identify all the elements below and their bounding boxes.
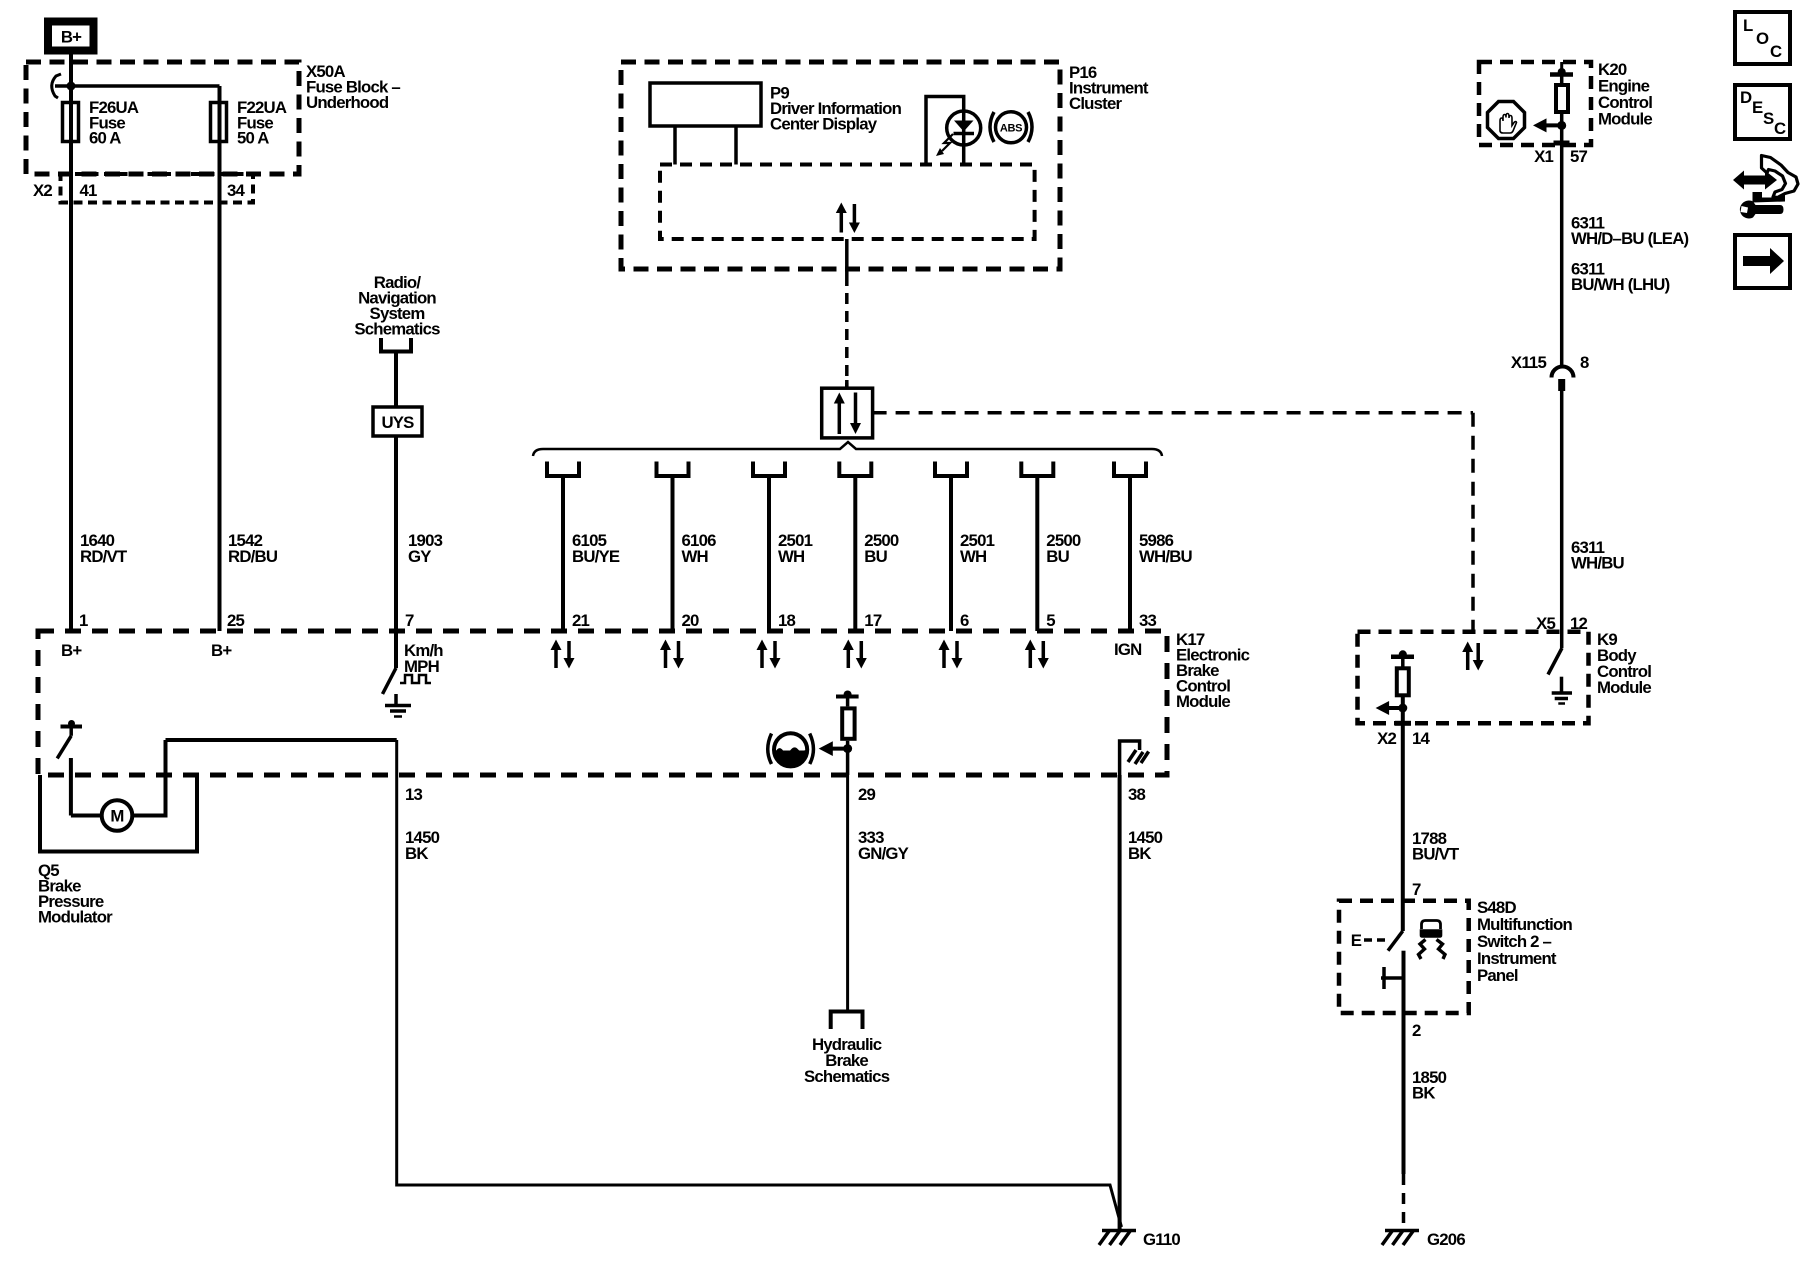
svg-text:E: E [1752, 98, 1763, 117]
brace over K17 serial connectors [533, 442, 1162, 456]
connector cup at wire 5986 [1114, 462, 1146, 477]
svg-text:14: 14 [1412, 729, 1431, 748]
svg-text:7: 7 [1412, 880, 1421, 899]
svg-text:BK: BK [1412, 1084, 1435, 1103]
svg-text:Module: Module [1176, 692, 1230, 711]
arrow inside K20 [1533, 118, 1562, 132]
svg-text:5: 5 [1046, 611, 1055, 630]
Q5 housing loop [40, 773, 197, 852]
up/down arrows at pin 20 [660, 640, 684, 669]
down arrow inside serial data box [849, 204, 860, 233]
indicator LED circle [947, 111, 981, 145]
wire label 2500 BU [864, 531, 899, 566]
wire label 6105 BU/YE [572, 531, 620, 566]
up/down arrows at pin 6 [939, 640, 963, 669]
svg-text:6: 6 [960, 611, 969, 630]
off-page connector bracket (radio/nav) [381, 338, 411, 352]
LED wire through [962, 111, 966, 165]
svg-text:BU: BU [1046, 547, 1069, 566]
svg-text:WH: WH [682, 547, 708, 566]
svg-text:BU/WH (LHU): BU/WH (LHU) [1571, 275, 1670, 294]
legend icon troubleshooting (arrows and wrench) [1733, 156, 1798, 219]
connector cup at wire 2501a [753, 462, 785, 477]
svg-text:B+: B+ [211, 641, 232, 660]
svg-text:60 A: 60 A [89, 129, 121, 148]
svg-text:BU/VT: BU/VT [1412, 845, 1460, 864]
junction node in K20 [1557, 121, 1566, 130]
ABS indicator right parenthesis [1028, 112, 1032, 142]
svg-text:41: 41 [80, 181, 98, 200]
connector cup at wire 2500a [839, 462, 871, 477]
up arrow inside serial data box [836, 203, 847, 233]
dashed serial data wire to comm node [845, 275, 849, 388]
junction node at pin 29 wire [843, 744, 852, 753]
wire label 1903 GY [408, 531, 443, 566]
wire 6311 from K20 to X115 [1560, 145, 1564, 365]
contact tick symbol in S48D [1381, 967, 1404, 989]
wire 333 GN/GY down to hydraulic brake bracket [846, 775, 849, 1010]
svg-text:Center Display: Center Display [770, 115, 878, 134]
wire label 2501 WH [778, 531, 813, 566]
svg-text:Module: Module [1597, 678, 1651, 697]
resistor element inside K9 [1391, 650, 1414, 723]
label Hydraulic Brake Schematics [804, 1035, 890, 1086]
svg-text:18: 18 [778, 611, 796, 630]
svg-text:1: 1 [79, 611, 88, 630]
wire 1450 BK from pin 38 to G110 [1118, 775, 1122, 1229]
wire label 1450 BK (pin 38) [1128, 828, 1163, 863]
display P9 Driver Information Center Display [650, 83, 761, 165]
label K20 Engine Control Module [1598, 60, 1652, 129]
up/down arrows at pin 17 [843, 640, 867, 669]
wire label 6311 WH/BU [1571, 538, 1625, 573]
wire motor left lead [71, 814, 102, 818]
ground G206 [1382, 1231, 1419, 1246]
svg-text:13: 13 [405, 785, 423, 804]
connector cup at wire 6106 [657, 462, 689, 477]
wire motor right lead up to K17 [132, 740, 165, 816]
wire 6105 BU/YE to K17 pin 21 [561, 476, 565, 631]
wire label 2501 WH [960, 531, 995, 566]
svg-text:X2: X2 [1377, 729, 1396, 748]
wire 6106 WH to K17 pin 20 [671, 476, 675, 631]
wire label 333 GN/GY [858, 828, 909, 863]
svg-text:RD/VT: RD/VT [80, 547, 128, 566]
connector X2 dashed box of fuse block [61, 174, 254, 203]
label P9 Driver Information Center Display [770, 84, 902, 134]
wire [1471, 413, 1475, 631]
wire label 6106 WH [682, 531, 717, 566]
wire from UYS to K17 pin 7 [394, 436, 398, 668]
fuse F22UA [211, 103, 227, 142]
instrument cluster P16 dashed box [621, 62, 1060, 269]
up/down arrows at pin 18 [757, 640, 781, 669]
wire from bracket to UYS option box [394, 352, 398, 408]
label Q5 Brake Pressure Modulator [38, 861, 113, 927]
internal ground symbol at K17 pin 38 [1120, 741, 1149, 775]
connector hook at B+ bus junction [52, 74, 61, 98]
up/down arrows at pin 5 [1025, 640, 1049, 669]
label S48D Multifunction Switch 2 Instrument Panel [1477, 898, 1572, 985]
label Km/h MPH [404, 641, 443, 676]
svg-text:7: 7 [405, 611, 414, 630]
resistive element squiggle at speed switch [400, 675, 431, 683]
svg-text:O: O [1756, 29, 1769, 48]
svg-text:MPH: MPH [404, 657, 439, 676]
svg-text:38: 38 [1128, 785, 1146, 804]
wire from B+ through fuse F26UA to K17 pin 1 [69, 55, 73, 632]
svg-text:WH/BU: WH/BU [1571, 554, 1625, 573]
dashed serial data wire from node box to K9 [873, 411, 1473, 415]
wire label 5986 WH/BU [1139, 531, 1193, 566]
legend icon arrow box [1735, 235, 1790, 288]
svg-text:X2: X2 [33, 181, 52, 200]
wire label 1788 BU/VT [1412, 829, 1460, 864]
svg-text:BU: BU [864, 547, 887, 566]
ABS indicator circle [996, 112, 1027, 143]
brake warning indicator symbol [768, 733, 814, 766]
serial data dashed box inside P16 [660, 165, 1035, 240]
svg-text:ABS: ABS [1000, 123, 1022, 135]
wire 1450 BK from pin 13 to G110 [397, 740, 1122, 1227]
LED cathode bar [954, 132, 975, 136]
junction node at fuse 1 [67, 82, 76, 91]
svg-text:20: 20 [682, 611, 700, 630]
svg-text:BK: BK [1128, 844, 1151, 863]
svg-text:D: D [1740, 88, 1752, 107]
connector cup at wire 2500b [1021, 462, 1053, 477]
dashed wire segment to G206 [1402, 1174, 1406, 1228]
svg-text:50 A: 50 A [237, 129, 269, 148]
Q5 pump relay contact inside K17 [57, 720, 82, 758]
LED emission arrow [942, 134, 953, 151]
wire from serial data box through P16 edge [845, 239, 849, 275]
svg-text:57: 57 [1570, 147, 1588, 166]
wire 5986 WH/BU to K17 pin 33 [1128, 476, 1132, 631]
svg-text:X1: X1 [1534, 147, 1553, 166]
label P16 Instrument Cluster [1069, 63, 1149, 113]
svg-text:C: C [1774, 119, 1786, 138]
brake warning indicator lamp housing [926, 97, 964, 165]
switch arm inside S48D [1388, 931, 1403, 951]
wire inside K17 to pin 13 [166, 738, 397, 742]
octagon hand icon inside K20 [1488, 102, 1525, 139]
svg-text:WH: WH [960, 547, 986, 566]
ABS indicator left parenthesis [990, 112, 994, 142]
wire from contact to Q5 motor [69, 758, 73, 816]
connector cup at wire 2501b [935, 462, 967, 477]
svg-text:33: 33 [1139, 611, 1157, 630]
wire label 2500 BU [1046, 531, 1081, 566]
fuse block X50A dashed box [26, 62, 299, 174]
wire 1850 BK from S48D toward G206 [1402, 1013, 1406, 1174]
resistor element at K17 pin 29 [836, 691, 859, 776]
up/down arrows inside K9 [1462, 642, 1484, 671]
legend icon LOC box [1735, 12, 1790, 64]
svg-text:Underhood: Underhood [306, 93, 389, 112]
svg-text:BU/YE: BU/YE [572, 547, 620, 566]
wire 2500 BU to K17 pin 5 [1035, 476, 1039, 631]
svg-text:G110: G110 [1143, 1230, 1180, 1249]
svg-text:L: L [1743, 16, 1753, 35]
svg-text:29: 29 [858, 785, 876, 804]
svg-text:2: 2 [1412, 1021, 1421, 1040]
svg-text:Cluster: Cluster [1069, 94, 1122, 113]
dashed link from E to switch [1364, 938, 1387, 942]
wire label 1542 RD/BU [228, 531, 278, 566]
off-page reference Radio/Navigation System Schematics [354, 273, 440, 339]
in-line connector X115 pin 8 [1552, 367, 1574, 391]
junction node in K9 [1398, 704, 1407, 713]
ground symbol inside K9 [1552, 677, 1572, 704]
wire 1788 BU/VT from K9 to S48D [1401, 723, 1405, 931]
motor M of Q5 [102, 800, 133, 831]
svg-text:WH: WH [778, 547, 804, 566]
wire label 1640 RD/VT [80, 531, 128, 566]
svg-text:M: M [110, 807, 123, 826]
svg-text:E: E [1351, 931, 1362, 950]
arrow inside K9 [1376, 701, 1403, 715]
K17 Electronic Brake Control Module dashed box [38, 631, 1167, 775]
off-page connector bracket (hydraulic brake) [831, 1012, 863, 1030]
svg-text:X115: X115 [1511, 353, 1547, 372]
serial communication node box with arrows [822, 388, 873, 438]
svg-text:G206: G206 [1427, 1230, 1465, 1249]
svg-text:C: C [1770, 42, 1782, 61]
wire label 6311 BU/WH (LHU) [1571, 260, 1670, 295]
wire stub above comm node box [845, 380, 849, 388]
svg-text:Modulator: Modulator [38, 908, 113, 927]
multifunction switch S48D dashed box [1339, 901, 1469, 1013]
wire label 6311 WH/D-BU (LEA) [1571, 214, 1689, 249]
svg-text:Module: Module [1598, 110, 1652, 129]
svg-text:Panel: Panel [1477, 966, 1518, 985]
arrow to brake warning indicator [819, 741, 848, 756]
up/down arrows at pin 21 [551, 640, 575, 669]
engine control module K20 dashed box [1479, 62, 1591, 145]
svg-text:8: 8 [1580, 353, 1589, 372]
svg-text:B+: B+ [61, 641, 82, 660]
svg-text:S: S [1763, 109, 1774, 128]
ESC off icon (car with skid marks) [1419, 921, 1446, 960]
svg-text:17: 17 [864, 611, 882, 630]
fuse F26UA [63, 103, 79, 142]
connector cup at wire 6105 [547, 462, 579, 477]
option box UYS [373, 407, 422, 436]
svg-text:RD/BU: RD/BU [228, 547, 278, 566]
pin tick at K9 connector [1395, 721, 1411, 726]
svg-text:B+: B+ [61, 28, 82, 47]
bus wire inside fuse block [55, 84, 220, 88]
svg-text:GN/GY: GN/GY [858, 844, 909, 863]
svg-text:25: 25 [227, 611, 245, 630]
power symbol B+ [48, 22, 94, 51]
label fuse F22UA [237, 98, 287, 148]
svg-text:WH/D–BU (LEA): WH/D–BU (LEA) [1571, 229, 1689, 248]
switch arm (vehicle speed signal) inside K17 [383, 668, 397, 694]
ground G110 [1099, 1231, 1136, 1246]
resistor element inside K20 [1550, 62, 1573, 145]
svg-text:GY: GY [408, 547, 431, 566]
wire from bus through fuse F22UA to K17 pin 25 [218, 86, 222, 631]
svg-text:Schematics: Schematics [354, 320, 440, 339]
LED diode triangle [954, 121, 974, 132]
svg-text:WH/BU: WH/BU [1139, 547, 1193, 566]
legend icon DESC box [1735, 85, 1790, 139]
label K17 Electronic Brake Control Module [1176, 630, 1250, 711]
wire 6311 WH/BU from X115 to K9 [1560, 391, 1564, 648]
svg-text:BK: BK [405, 844, 428, 863]
body control module K9 dashed box [1358, 632, 1589, 724]
wire through S48D switch [1402, 951, 1406, 1013]
pin tick at K20 connector [1554, 141, 1570, 146]
label K9 Body Control Module [1597, 630, 1651, 697]
wire label 1850 BK [1412, 1068, 1447, 1103]
wire 2500 BU to K17 pin 17 [853, 476, 857, 631]
wire label 1450 BK (pin 13) [405, 828, 440, 863]
label fuse F26UA [89, 98, 139, 148]
svg-text:UYS: UYS [381, 413, 414, 432]
wire 2501 WH to K17 pin 18 [767, 476, 771, 631]
svg-text:21: 21 [572, 611, 590, 630]
wire 2501 WH to K17 pin 6 [949, 476, 953, 631]
svg-text:IGN: IGN [1114, 640, 1141, 659]
switch arm inside K9 [1548, 648, 1562, 675]
svg-text:Schematics: Schematics [804, 1067, 890, 1086]
svg-text:34: 34 [227, 181, 246, 200]
ground symbol inside K17 below speed switch [385, 694, 411, 717]
label X50A Fuse Block Underhood [306, 62, 400, 112]
